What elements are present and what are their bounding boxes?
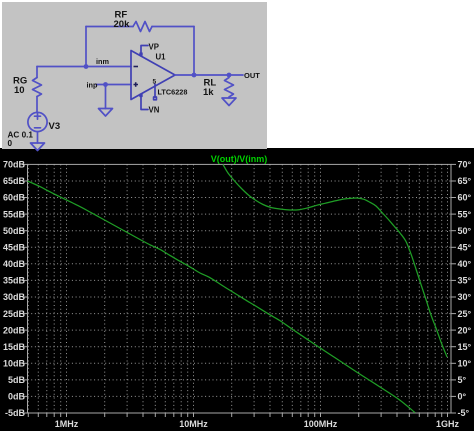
svg-text:LTC6228: LTC6228 — [158, 88, 188, 97]
svg-text:100MHz: 100MHz — [304, 419, 338, 429]
op-amp U1 triangle — [131, 51, 175, 100]
svg-text:inp: inp — [87, 81, 98, 90]
op-amp VP pin square — [140, 53, 142, 55]
svg-text:1GHz: 1GHz — [436, 419, 460, 429]
svg-text:10°: 10° — [458, 359, 472, 369]
svg-text:VP: VP — [149, 43, 159, 52]
svg-text:50°: 50° — [458, 226, 472, 236]
svg-text:5dB: 5dB — [8, 375, 26, 385]
svg-text:5: 5 — [153, 79, 157, 86]
wire feedback right vertical — [193, 27, 195, 76]
svg-text:0dB: 0dB — [8, 392, 26, 402]
svg-text:OUT: OUT — [244, 71, 260, 80]
svg-text:65°: 65° — [458, 176, 472, 186]
wire inp — [96, 84, 131, 86]
right axis degree labels — [458, 160, 472, 419]
frequency axis labels — [55, 419, 460, 429]
bottom axis ticks — [28, 413, 447, 417]
ground (V3) — [31, 143, 45, 151]
plot pane background — [0, 148, 474, 431]
svg-text:20°: 20° — [458, 325, 472, 335]
voltage source V3 — [28, 112, 47, 131]
grid vertical dotted lines — [28, 164, 447, 413]
svg-text:10: 10 — [14, 85, 25, 96]
ground (RL) — [222, 98, 236, 106]
op-amp VP pin — [141, 46, 148, 57]
svg-text:70dB: 70dB — [3, 160, 26, 170]
output feedback junction — [192, 73, 197, 78]
wire inm — [37, 66, 131, 68]
svg-text:55dB: 55dB — [3, 209, 26, 219]
svg-text:15dB: 15dB — [3, 342, 26, 352]
left axis dB labels — [3, 160, 26, 419]
svg-text:25dB: 25dB — [3, 309, 26, 319]
svg-text:-5°: -5° — [458, 408, 470, 418]
svg-text:1MHz: 1MHz — [55, 419, 79, 429]
schematic pane background — [2, 2, 267, 149]
wire inp ground drop — [105, 85, 107, 109]
op-amp plus mark — [134, 82, 139, 86]
svg-text:-5dB: -5dB — [5, 408, 26, 418]
op-amp VN pin square — [140, 94, 142, 96]
wire left vertical to RG — [36, 67, 38, 78]
node inp junction — [103, 82, 108, 87]
svg-text:1k: 1k — [203, 87, 214, 98]
svg-text:70°: 70° — [458, 160, 472, 170]
svg-text:60dB: 60dB — [3, 193, 26, 203]
svg-text:35°: 35° — [458, 276, 472, 286]
svg-text:10dB: 10dB — [3, 359, 26, 369]
svg-text:35dB: 35dB — [3, 276, 26, 286]
op-amp minus mark — [134, 66, 139, 68]
wire feedback top — [86, 26, 194, 28]
plot axis box — [28, 164, 452, 413]
right axis ticks — [451, 164, 456, 413]
node inm junction — [84, 64, 89, 69]
resistor RF — [133, 22, 152, 32]
trace gain curve — [223, 164, 447, 357]
svg-text:V3: V3 — [49, 121, 61, 132]
svg-text:U1: U1 — [156, 53, 167, 62]
trace phase curve — [28, 181, 416, 413]
svg-text:inm: inm — [96, 57, 109, 66]
svg-text:10MHz: 10MHz — [179, 419, 208, 429]
svg-text:0°: 0° — [458, 392, 467, 402]
wire feedback left vertical — [85, 27, 87, 67]
svg-text:45°: 45° — [458, 243, 472, 253]
output RL junction — [227, 73, 232, 78]
svg-text:40°: 40° — [458, 259, 472, 269]
grid horizontal dotted lines — [28, 181, 452, 396]
svg-text:0: 0 — [8, 139, 13, 148]
left axis ticks — [22, 164, 28, 413]
svg-text:65dB: 65dB — [3, 176, 26, 186]
svg-text:15°: 15° — [458, 342, 472, 352]
svg-text:60°: 60° — [458, 193, 472, 203]
svg-text:55°: 55° — [458, 209, 472, 219]
svg-text:V(out)/V(inm): V(out)/V(inm) — [211, 154, 268, 164]
resistor RL — [225, 75, 234, 98]
op-amp VN pin — [141, 94, 148, 110]
svg-text:25°: 25° — [458, 309, 472, 319]
svg-text:20k: 20k — [114, 19, 131, 30]
svg-text:20dB: 20dB — [3, 325, 26, 335]
wire output — [175, 74, 243, 76]
svg-text:30°: 30° — [458, 292, 472, 302]
wire RG to V3 — [36, 97, 38, 113]
svg-text:50dB: 50dB — [3, 226, 26, 236]
svg-text:30dB: 30dB — [3, 292, 26, 302]
wire V3 to ground — [37, 132, 39, 143]
op-amp pin 5 stub — [154, 84, 156, 97]
svg-text:5°: 5° — [458, 375, 467, 385]
ground (inp) — [99, 109, 113, 117]
svg-text:40dB: 40dB — [3, 259, 26, 269]
svg-text:VN: VN — [149, 106, 160, 115]
resistor RG — [33, 78, 42, 97]
svg-text:45dB: 45dB — [3, 243, 26, 253]
